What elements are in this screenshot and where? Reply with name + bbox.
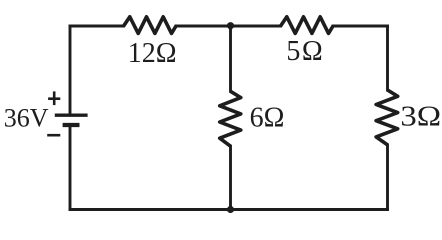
svg-text:36V: 36V: [4, 104, 49, 133]
svg-text:12Ω: 12Ω: [128, 38, 177, 69]
svg-text:6Ω: 6Ω: [250, 102, 285, 133]
svg-text:5Ω: 5Ω: [286, 36, 324, 67]
svg-text:3Ω: 3Ω: [400, 101, 441, 132]
